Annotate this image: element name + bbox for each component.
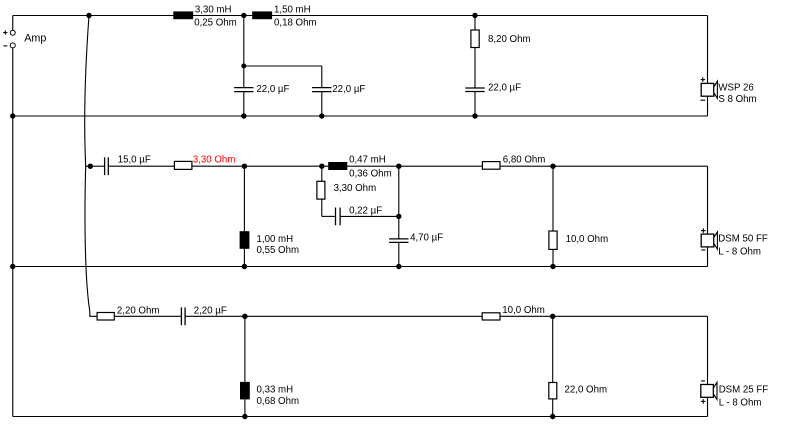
svg-text:0,25 Ohm: 0,25 Ohm <box>194 18 237 29</box>
svg-text:2,20 Ohm: 2,20 Ohm <box>117 305 160 316</box>
svg-text:L - 8 Ohm: L - 8 Ohm <box>719 397 762 408</box>
svg-text:10,0 Ohm: 10,0 Ohm <box>502 305 545 316</box>
svg-text:1,50 mH: 1,50 mH <box>274 4 311 15</box>
svg-text:22,0 µF: 22,0 µF <box>332 84 365 95</box>
svg-text:22,0 Ohm: 22,0 Ohm <box>565 384 608 395</box>
svg-text:L - 8 Ohm: L - 8 Ohm <box>718 246 761 257</box>
svg-text:4,70 µF: 4,70 µF <box>410 232 443 243</box>
svg-text:0,18 Ohm: 0,18 Ohm <box>274 18 317 29</box>
svg-text:3,30 Ohm: 3,30 Ohm <box>193 154 236 165</box>
svg-text:15,0 µF: 15,0 µF <box>118 155 151 166</box>
svg-text:0,22 µF: 0,22 µF <box>349 206 382 217</box>
svg-text:WSP 26: WSP 26 <box>718 83 753 94</box>
svg-text:Amp: Amp <box>24 33 46 45</box>
svg-text:DSM 25 FF: DSM 25 FF <box>719 385 769 396</box>
svg-text:22,0 µF: 22,0 µF <box>488 83 521 94</box>
svg-text:0,36 Ohm: 0,36 Ohm <box>349 168 392 179</box>
svg-text:0,68 Ohm: 0,68 Ohm <box>257 396 300 407</box>
svg-text:1,00 mH: 1,00 mH <box>257 234 294 245</box>
svg-text:22,0 µF: 22,0 µF <box>256 84 289 95</box>
svg-text:DSM 50 FF: DSM 50 FF <box>718 233 768 244</box>
svg-text:10,0 Ohm: 10,0 Ohm <box>566 234 609 245</box>
svg-text:0,33 mH: 0,33 mH <box>257 385 294 396</box>
svg-text:0,47 mH: 0,47 mH <box>349 155 386 166</box>
svg-text:6,80 Ohm: 6,80 Ohm <box>503 154 546 165</box>
svg-text:2,20 µF: 2,20 µF <box>194 306 227 317</box>
svg-text:S 8 Ohm: S 8 Ohm <box>718 94 756 105</box>
svg-text:3,30 Ohm: 3,30 Ohm <box>334 183 377 194</box>
svg-text:0,55 Ohm: 0,55 Ohm <box>257 245 300 256</box>
svg-text:8,20 Ohm: 8,20 Ohm <box>488 34 531 45</box>
svg-text:3,30 mH: 3,30 mH <box>195 4 232 15</box>
